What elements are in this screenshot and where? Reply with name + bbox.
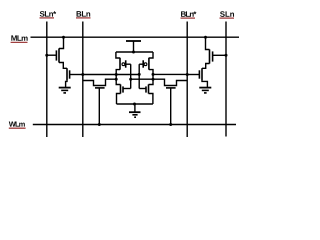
junction dot BLn node bbox=[81, 73, 84, 76]
transistor Q1 channel bbox=[58, 48, 60, 62]
junction dot node Qb top bbox=[152, 73, 155, 76]
label BLn bbox=[76, 11, 91, 18]
junction dot SLn gate bbox=[225, 54, 228, 57]
transistor Q3 source into Q4 bbox=[202, 64, 210, 69]
ground G2 bbox=[129, 112, 141, 117]
node Q wire across BLn bbox=[83, 74, 116, 76]
transistor Q3 gate lead to SLn bbox=[213, 54, 226, 56]
search line SLn bbox=[225, 22, 227, 137]
transistor Q1 gate lead to SLn* bbox=[47, 54, 57, 56]
pmos P1 gate bar bbox=[125, 60, 127, 67]
cross couple vertical B (right inverter gate) bbox=[138, 64, 140, 88]
junction dot ML right stack bbox=[204, 36, 207, 39]
label SLn bbox=[220, 11, 235, 18]
nmos N2 source leg bbox=[149, 94, 153, 105]
junction dot WL right access gate bbox=[169, 123, 172, 126]
vdd supply of latch bbox=[126, 40, 141, 42]
access transistor Q6 gate stem to WL bbox=[170, 88, 172, 125]
label SLn* bbox=[40, 11, 57, 18]
pmos P2 gate bar bbox=[142, 60, 144, 67]
vdd rail bbox=[116, 51, 153, 53]
transistor Q1 left match top: drain to ML bbox=[59, 37, 64, 48]
label MLm bbox=[11, 35, 28, 42]
label BLn* bbox=[181, 11, 197, 18]
nmos N1 source leg bbox=[117, 94, 121, 105]
junction dot node Q access bbox=[115, 78, 118, 81]
transistor Q4 gate bar bbox=[198, 70, 200, 78]
pmos P1 channel bbox=[119, 58, 121, 70]
nmos N1 drain leg bbox=[116, 75, 120, 85]
transistor Q1 source into Q2 bbox=[59, 63, 67, 69]
ground G3 bbox=[199, 88, 211, 93]
transistor Q4 gate lead to BLn* bbox=[187, 74, 199, 76]
latch ground rail bbox=[117, 103, 153, 105]
access transistor Q6 channel path node Qb to BLn* bbox=[153, 79, 187, 85]
pmos P2 gate bubble bbox=[144, 63, 147, 66]
word line WLm bbox=[33, 124, 236, 126]
nmos N2 gate bar bbox=[145, 86, 147, 92]
node Qb wire across BLn* bbox=[153, 73, 187, 75]
junction dot BLn* node bbox=[186, 73, 189, 76]
junction dot latch ground rail bbox=[133, 103, 136, 106]
access transistor Q6 gate bar bbox=[166, 87, 176, 89]
pmos P2 source leg bbox=[149, 52, 153, 58]
search line SLn* bbox=[46, 22, 48, 138]
junction dot node Qb access bbox=[152, 78, 155, 81]
transistor Q2 gate lead to BLn bbox=[70, 74, 83, 76]
cross couple vertical A (left inverter gate) bbox=[130, 64, 132, 88]
ground G2 stem bbox=[134, 104, 136, 112]
access transistor Q5 gate stem to WL bbox=[98, 88, 100, 125]
bit line BLn bbox=[82, 22, 84, 138]
vdd stem bbox=[133, 41, 135, 52]
pmos P1 source leg bbox=[116, 52, 120, 58]
match line MLm bbox=[31, 36, 240, 38]
transistor Q2 left match bottom: channel bbox=[66, 68, 68, 81]
junction dot SLn* gate bbox=[45, 54, 48, 57]
node Q wire to right inverter gate bbox=[116, 74, 139, 76]
transistor Q3 gate bar bbox=[212, 51, 214, 61]
pmos P1 gate lead bbox=[126, 63, 131, 65]
transistor Q1 gate bar bbox=[55, 50, 57, 60]
nmos N1 gate lead bbox=[123, 88, 131, 90]
nmos N2 drain leg bbox=[149, 74, 154, 84]
transistor Q3 channel bbox=[209, 49, 211, 63]
junction dot Qb at vertical A bbox=[129, 78, 132, 81]
junction dot ML left stack bbox=[62, 36, 65, 39]
pmos P2 channel bbox=[148, 58, 150, 70]
pmos P2 gate lead bbox=[139, 63, 143, 65]
junction dot WL left access gate bbox=[98, 123, 101, 126]
access transistor Q5 gate bar bbox=[95, 87, 105, 89]
label WLm bbox=[9, 122, 26, 129]
pmos P1 gate bubble bbox=[122, 63, 125, 66]
transistor Q2 source to ground bbox=[66, 81, 67, 87]
pmos P2 drain to node Qb bbox=[149, 70, 153, 75]
nmos N2 gate lead bbox=[139, 88, 146, 90]
transistor Q4 right match bottom: channel bbox=[201, 68, 203, 81]
node Qb wire to left inverter gate bbox=[131, 78, 153, 80]
transistor Q2 gate bar bbox=[69, 70, 71, 78]
pmos P1 drain to node Q bbox=[116, 70, 120, 75]
junction dot vdd stem bbox=[132, 51, 135, 54]
ground G1 bbox=[59, 88, 71, 93]
access transistor Q5 channel path BLn to node Q bbox=[83, 79, 116, 85]
junction dot Q at vertical B bbox=[138, 73, 141, 76]
transistor Q4 source to ground bbox=[202, 81, 207, 87]
transistor Q3 right match top: drain to ML bbox=[206, 37, 210, 49]
nmos N2 channel bbox=[148, 84, 150, 93]
nmos N1 channel bbox=[120, 84, 122, 93]
nmos N1 gate bar bbox=[122, 86, 124, 92]
bit line BLn* bbox=[186, 22, 188, 138]
junction dot node Q top bbox=[115, 73, 118, 76]
